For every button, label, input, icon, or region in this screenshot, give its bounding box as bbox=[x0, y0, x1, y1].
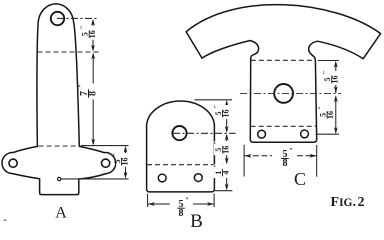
svg-text:″: ″ bbox=[185, 197, 189, 205]
svg-text:8: 8 bbox=[283, 158, 288, 169]
svg-text:A: A bbox=[55, 205, 67, 222]
svg-text:″: ″ bbox=[213, 164, 220, 168]
svg-text:16: 16 bbox=[326, 111, 335, 119]
svg-text:16: 16 bbox=[222, 110, 231, 118]
svg-text:″: ″ bbox=[289, 147, 293, 155]
svg-text:″: ″ bbox=[322, 71, 329, 75]
svg-text:″: ″ bbox=[80, 26, 87, 30]
svg-text:16: 16 bbox=[222, 146, 231, 154]
svg-text:16: 16 bbox=[121, 158, 130, 166]
svg-text:B: B bbox=[190, 211, 203, 228]
svg-text:16: 16 bbox=[88, 30, 97, 38]
svg-text:″: ″ bbox=[213, 141, 220, 145]
svg-text:8: 8 bbox=[88, 91, 99, 96]
svg-text:″: ″ bbox=[318, 106, 325, 110]
svg-text:16: 16 bbox=[331, 76, 340, 84]
svg-text:8: 8 bbox=[179, 208, 184, 219]
svg-text:C: C bbox=[294, 169, 306, 189]
svg-text:4: 4 bbox=[221, 171, 230, 175]
svg-text:FIG.2: FIG.2 bbox=[331, 195, 365, 210]
svg-text:″: ″ bbox=[77, 84, 86, 88]
svg-text:″: ″ bbox=[213, 105, 220, 109]
svg-text:″: ″ bbox=[112, 153, 119, 157]
